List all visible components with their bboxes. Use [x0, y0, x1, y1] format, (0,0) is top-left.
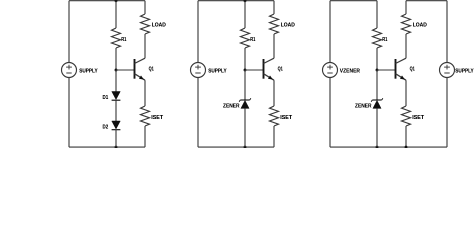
svg-text:SUPPLY: SUPPLY — [208, 69, 227, 75]
svg-text:D1: D1 — [103, 95, 109, 101]
svg-text:Q1: Q1 — [149, 66, 154, 72]
svg-text:ISET: ISET — [280, 115, 292, 121]
svg-text:Q1: Q1 — [278, 66, 283, 72]
svg-text:ISET: ISET — [151, 115, 163, 121]
svg-text:VZENER: VZENER — [340, 69, 360, 75]
svg-text:ISET: ISET — [412, 115, 424, 121]
svg-text:SUPPLY: SUPPLY — [79, 69, 98, 75]
svg-text:ZENER: ZENER — [355, 103, 372, 109]
svg-text:D2: D2 — [103, 124, 109, 130]
svg-text:LOAD: LOAD — [281, 22, 295, 28]
svg-text:R1: R1 — [382, 37, 387, 43]
svg-text:SUPPLY: SUPPLY — [455, 69, 474, 75]
svg-text:LOAD: LOAD — [413, 22, 427, 28]
svg-text:ZENER: ZENER — [223, 103, 240, 109]
svg-text:LOAD: LOAD — [152, 22, 166, 28]
svg-text:R1: R1 — [121, 37, 126, 43]
svg-text:R1: R1 — [250, 37, 255, 43]
svg-text:Q1: Q1 — [410, 66, 415, 72]
